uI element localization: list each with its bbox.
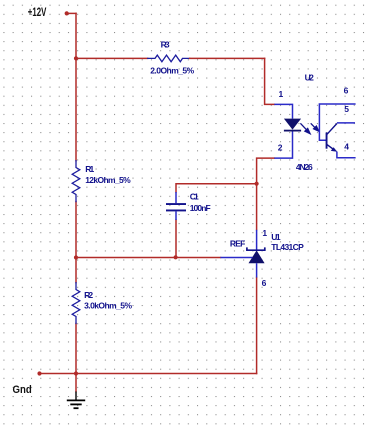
wire +12V stub <box>67 12 76 14</box>
wire C1 bottom to REF net <box>175 220 177 257</box>
svg-text:Gnd: Gnd <box>13 384 32 396</box>
ground <box>67 392 85 409</box>
optocoupler U2 LED (pins 1,2) <box>274 104 301 158</box>
svg-text:1: 1 <box>262 228 267 238</box>
wire left rail bottom segment <box>75 324 77 374</box>
resistor R2 <box>72 283 80 324</box>
svg-text:R2: R2 <box>84 290 93 300</box>
svg-text:TL431CP: TL431CP <box>271 242 304 252</box>
wire ground stem <box>75 374 77 392</box>
shunt regulator U1 TL431CP <box>220 230 264 278</box>
svg-text:1: 1 <box>279 89 284 99</box>
svg-text:12kOhm_5%: 12kOhm_5% <box>85 175 131 185</box>
wire R3 right <box>190 57 265 59</box>
svg-text:5: 5 <box>344 104 349 114</box>
wire TL431 anode down <box>256 278 258 374</box>
resistor R1 <box>72 161 80 202</box>
node junction C1/REF <box>174 255 178 259</box>
svg-text:C1: C1 <box>190 191 199 201</box>
svg-text:6: 6 <box>262 278 267 288</box>
svg-text:REF: REF <box>230 239 245 249</box>
svg-text:3.0kOhm_5%: 3.0kOhm_5% <box>84 300 132 310</box>
svg-text:100nF: 100nF <box>190 203 211 213</box>
node junction rail/R3 <box>74 56 78 60</box>
node junction rail/REF <box>74 255 78 259</box>
node junction pin2/C1 <box>255 182 259 186</box>
wire REF horizontal <box>76 257 220 259</box>
node +12V terminal dot <box>65 11 69 15</box>
svg-text:U1: U1 <box>271 232 281 242</box>
wire left rail mid segment <box>75 202 77 283</box>
capacitor C1 <box>166 192 186 220</box>
svg-text:2: 2 <box>278 142 283 152</box>
svg-text:4: 4 <box>344 142 349 152</box>
svg-text:6: 6 <box>344 86 349 96</box>
svg-text:R3: R3 <box>161 40 170 50</box>
svg-text:4N26: 4N26 <box>296 162 313 172</box>
optocoupler U2 base lead pin 6 <box>319 104 355 140</box>
wire bottom ground run <box>40 373 257 375</box>
svg-text:R1: R1 <box>85 164 94 174</box>
svg-text:2.0Ohm_5%: 2.0Ohm_5% <box>150 66 194 76</box>
wire drop to opto pin1 <box>265 58 275 104</box>
svg-text:U2: U2 <box>305 72 315 82</box>
node Gnd terminal dot <box>37 371 41 375</box>
light arrow 1 <box>300 123 310 133</box>
wire opto pin2 to TL431 <box>257 158 275 230</box>
wire left rail top segment <box>75 13 77 160</box>
svg-text:+12V: +12V <box>28 7 47 19</box>
resistor R3 <box>148 55 190 62</box>
wire branch to C1 <box>176 184 257 192</box>
wire R3 left <box>76 57 148 59</box>
optocoupler U2 phototransistor (pins 4,5) <box>326 123 356 158</box>
light arrow 2 <box>311 123 319 131</box>
node junction rail/ground wire <box>74 371 78 375</box>
